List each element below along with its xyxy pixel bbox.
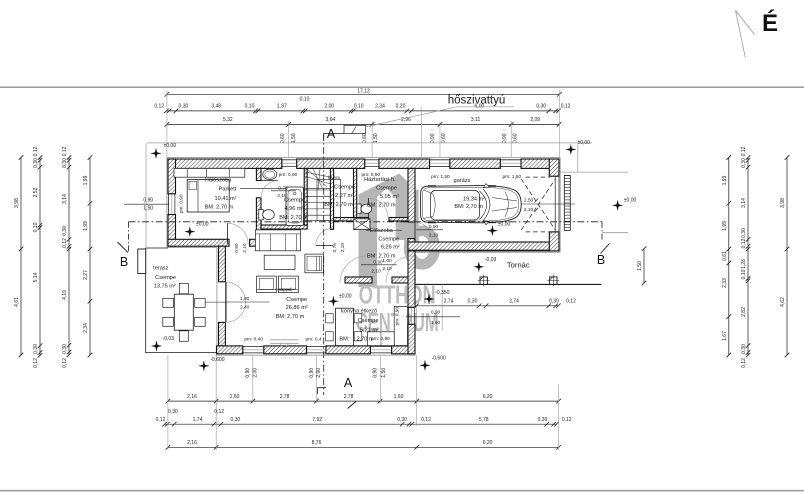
north wall segment 1 — [168, 159, 282, 168]
terrace-side west wall of living room upper — [219, 246, 226, 282]
terrace pillar on B axis — [138, 249, 146, 274]
svg-text:0,30: 0,30 — [62, 158, 68, 168]
plaster outline west facade — [166, 157, 168, 247]
svg-text:0,90: 0,90 — [373, 368, 379, 378]
svg-text:garázs: garázs — [454, 178, 471, 184]
svg-text:1,50: 1,50 — [381, 368, 387, 378]
washing machine — [354, 219, 370, 230]
page bottom rule — [0, 490, 804, 492]
svg-text:0,10: 0,10 — [741, 269, 747, 279]
svg-text:A: A — [327, 127, 336, 141]
svg-text:2,10: 2,10 — [371, 269, 381, 275]
svg-text:0,60: 0,60 — [362, 133, 368, 143]
svg-text:1,99: 1,99 — [83, 221, 89, 231]
svg-text:0,12: 0,12 — [62, 146, 68, 156]
svg-text:0,12: 0,12 — [33, 146, 39, 156]
car hood lines — [492, 192, 517, 217]
svg-text:2,40: 2,40 — [240, 304, 250, 310]
svg-text:3,14: 3,14 — [62, 194, 68, 204]
kitchen chairs — [326, 314, 334, 323]
watermark Otthon Centrum logo monogram — [359, 174, 419, 288]
svg-text:2,10: 2,10 — [524, 207, 534, 213]
garage east wall south block — [549, 232, 559, 251]
heat pump leader line — [365, 107, 514, 127]
svg-text:0,12: 0,12 — [156, 417, 166, 423]
svg-text:2,10: 2,10 — [382, 266, 392, 272]
entry hall south wall east segment — [392, 277, 415, 283]
svg-text:19,34 m²: 19,34 m² — [463, 196, 485, 202]
svg-text:5,32: 5,32 — [223, 117, 233, 123]
svg-text:2,16: 2,16 — [187, 440, 197, 446]
svg-text:2,78: 2,78 — [280, 394, 290, 400]
svg-text:BM: 2,70 m: BM: 2,70 m — [367, 202, 396, 208]
svg-text:0,12: 0,12 — [214, 409, 224, 415]
svg-text:5,78: 5,78 — [479, 417, 489, 423]
svg-text:BM:: BM: — [339, 336, 349, 342]
svg-text:2,74: 2,74 — [509, 299, 519, 305]
dim chain left overall — [20, 158, 22, 356]
south wall segment 1 — [217, 346, 243, 354]
elevation mark ±0,00 — [328, 296, 338, 306]
svg-text:6,26 m²: 6,26 m² — [381, 244, 400, 250]
svg-text:BM: 2,70 m: BM: 2,70 m — [454, 204, 483, 210]
porch extension line — [441, 284, 443, 330]
svg-text:-0,600: -0,600 — [432, 356, 446, 362]
dim chain top rooms — [167, 123, 559, 125]
bed — [187, 180, 229, 212]
sofa — [255, 230, 300, 251]
svg-text:-0,03: -0,03 — [163, 336, 175, 342]
svg-text:0,90: 0,90 — [431, 310, 441, 316]
svg-text:0,30: 0,30 — [33, 158, 39, 168]
guide line from elevation mark top right — [577, 145, 579, 173]
svg-text:4,61: 4,61 — [14, 297, 20, 307]
svg-text:0,90: 0,90 — [234, 243, 240, 253]
elevation mark -0,600 — [199, 361, 209, 371]
svg-text:3,48: 3,48 — [211, 103, 221, 109]
svg-text:1,60: 1,60 — [230, 394, 240, 400]
svg-text:0,61: 0,61 — [722, 251, 728, 261]
hall south wall east segment — [389, 218, 409, 222]
svg-text:1,50: 1,50 — [373, 133, 379, 143]
svg-text:2,27 m²: 2,27 m² — [335, 193, 354, 199]
porch floor edge line — [415, 283, 602, 285]
svg-text:2,34: 2,34 — [375, 103, 385, 109]
svg-text:-0,03: -0,03 — [485, 257, 497, 263]
svg-text:2,10: 2,10 — [429, 233, 439, 239]
svg-text:1,74: 1,74 — [193, 417, 203, 423]
svg-text:±0,00: ±0,00 — [498, 221, 511, 227]
svg-text:13,75 m²: 13,75 m² — [154, 283, 176, 289]
dim chain top detailed — [166, 110, 558, 112]
car top view body — [421, 186, 522, 223]
elevation mark -0,03 — [474, 262, 484, 272]
window W1 west bedroom window — [168, 194, 170, 215]
window S3 kitchen window — [370, 346, 391, 348]
svg-text:Tornác: Tornác — [507, 260, 530, 269]
svg-text:0,10: 0,10 — [33, 222, 39, 232]
plaster outline garage east facade — [559, 157, 561, 252]
wall bedroom-bathroom upper — [256, 168, 261, 180]
wall stairs-pantry — [330, 168, 333, 229]
svg-text:0,30: 0,30 — [33, 344, 39, 354]
garage east wall north block — [549, 159, 559, 176]
svg-text:5,21 m²: 5,21 m² — [360, 327, 379, 333]
svg-text:0,30: 0,30 — [538, 417, 548, 423]
svg-text:6,20: 6,20 — [483, 394, 493, 400]
hall south wall west segment — [334, 218, 369, 222]
kitchen counter south — [368, 332, 395, 346]
svg-text:0,30: 0,30 — [741, 344, 747, 354]
dim chain bottom overall — [168, 446, 559, 448]
bedroom south wall jamb east — [250, 239, 261, 246]
svg-text:2,00: 2,00 — [316, 368, 322, 378]
section B left marker — [128, 222, 130, 252]
svg-text:1,50: 1,50 — [143, 206, 153, 212]
dim porch depth — [643, 249, 645, 284]
svg-text:Csempe: Csempe — [286, 297, 307, 303]
svg-text:pm: 0,4: pm: 0,4 — [306, 337, 322, 343]
plot line right of garage lower — [602, 232, 628, 234]
plaster outline north facade — [167, 156, 560, 158]
south wall segment 4 — [392, 346, 415, 354]
section A bottom marker — [318, 388, 327, 394]
door bedroom to living room — [227, 223, 229, 244]
svg-text:0,30: 0,30 — [741, 158, 747, 168]
label leader line bedroom — [240, 187, 330, 189]
plaster outline garage south facade — [416, 251, 561, 253]
wall bedroom-bathroom lower — [256, 198, 261, 240]
west wall upper segment — [168, 159, 176, 194]
staircase winder treads — [305, 169, 331, 190]
svg-text:É: É — [762, 9, 778, 37]
car cabin — [431, 191, 480, 221]
elevation mark ±0,00 — [151, 148, 161, 158]
north wall segment 2 — [297, 159, 365, 168]
svg-text:0,10: 0,10 — [245, 103, 255, 109]
svg-text:3,14: 3,14 — [741, 198, 747, 208]
svg-text:0,30: 0,30 — [741, 228, 747, 238]
svg-text:2,74: 2,74 — [444, 299, 454, 305]
car wheels — [428, 186, 496, 223]
svg-text:Csempe: Csempe — [358, 318, 379, 324]
svg-text:4,19: 4,19 — [62, 290, 68, 300]
extension lines top — [166, 91, 168, 158]
svg-text:0,12: 0,12 — [566, 299, 576, 305]
svg-text:0,90: 0,90 — [502, 133, 508, 143]
dim west window — [124, 203, 168, 205]
svg-text:0,60: 0,60 — [441, 133, 447, 143]
svg-text:17,12: 17,12 — [357, 88, 370, 94]
dim chain right overall — [786, 158, 788, 356]
bathtub — [286, 187, 304, 226]
tv console on south wall — [270, 339, 298, 341]
west wall lower segment — [168, 215, 176, 247]
svg-text:Csempe: Csempe — [284, 197, 305, 203]
svg-text:6,20: 6,20 — [483, 440, 493, 446]
svg-text:±0,00: ±0,00 — [624, 197, 637, 203]
garage door swing dashed lines — [521, 179, 555, 230]
svg-text:0,30: 0,30 — [397, 417, 407, 423]
svg-text:2,34: 2,34 — [83, 323, 89, 333]
elevation mark -0,350 — [424, 294, 434, 304]
garage gate dim line — [520, 203, 575, 205]
svg-text:2,10: 2,10 — [242, 243, 248, 253]
car windshield — [480, 189, 491, 221]
terrace door dim leader — [206, 301, 227, 303]
kitchen counter east — [394, 307, 407, 346]
svg-text:Háztartási h.: Háztartási h. — [364, 177, 396, 183]
car rear window — [424, 190, 435, 218]
svg-text:A: A — [344, 376, 353, 390]
svg-text:0,12: 0,12 — [33, 358, 39, 368]
svg-text:0,12: 0,12 — [741, 358, 747, 368]
dim chain left rooms — [89, 158, 91, 356]
dim chain bottom detailed — [165, 423, 557, 425]
svg-text:8,76: 8,76 — [312, 440, 322, 446]
bedroom south wall segment west — [168, 239, 229, 246]
svg-text:0,90: 0,90 — [143, 198, 153, 204]
dim chain right detailed — [747, 158, 749, 356]
svg-text:0,12: 0,12 — [561, 103, 571, 109]
svg-text:0,10: 0,10 — [354, 103, 364, 109]
svg-text:-0,350: -0,350 — [435, 290, 449, 296]
svg-text:2,09: 2,09 — [530, 117, 540, 123]
svg-text:0,12: 0,12 — [62, 358, 68, 368]
svg-text:2,27: 2,27 — [83, 270, 89, 280]
porch column 2 — [550, 277, 557, 284]
svg-text:0,90: 0,90 — [430, 133, 436, 143]
staircase straight treads — [304, 189, 331, 191]
svg-text:pm: 0,40: pm: 0,40 — [244, 337, 263, 343]
svg-text:hőszivattyú: hőszivattyú — [448, 94, 506, 106]
svg-text:1,50: 1,50 — [431, 320, 441, 326]
armchair 2 — [279, 276, 299, 293]
svg-text:0,30: 0,30 — [231, 417, 241, 423]
porch column 1 — [480, 277, 487, 284]
coffee table — [264, 255, 295, 269]
north wall segment 3 — [379, 159, 430, 168]
elevation mark -0,03 — [152, 341, 162, 351]
svg-text:2,33: 2,33 — [722, 278, 728, 288]
door utility room — [368, 198, 370, 218]
elevation mark ±0,00 — [185, 227, 195, 237]
svg-text:0,30: 0,30 — [62, 226, 68, 236]
svg-text:0,30: 0,30 — [62, 344, 68, 354]
plot line right of garage upper — [559, 171, 628, 173]
svg-text:BM: 2,70 m: BM: 2,70 m — [279, 215, 308, 221]
south wall segment 2 — [264, 346, 307, 354]
terrace outline — [146, 248, 217, 353]
svg-text:B: B — [120, 255, 128, 269]
section B right marker — [601, 222, 603, 242]
svg-text:BM: 2,70 m: BM: 2,70 m — [205, 205, 234, 211]
terrace-side west wall of living room lower — [219, 322, 226, 346]
wall bathroom-stairs — [304, 168, 307, 225]
terrace chairs — [163, 298, 174, 307]
svg-text:±0,00: ±0,00 — [578, 140, 591, 146]
svg-text:1,99: 1,99 — [83, 175, 89, 185]
svg-text:1,00: 1,00 — [382, 258, 392, 264]
svg-text:0,90: 0,90 — [429, 224, 439, 230]
svg-text:3,98: 3,98 — [780, 198, 786, 208]
section line B-B — [129, 221, 603, 223]
tv armchair — [305, 254, 324, 273]
north arrow — [736, 10, 755, 57]
dim chain right rooms — [728, 158, 730, 356]
svg-text:0,30: 0,30 — [468, 299, 478, 305]
elevation mark -0,600 — [420, 360, 430, 370]
garage opening reveal lines — [554, 176, 556, 232]
svg-text:10,41 m²: 10,41 m² — [214, 196, 236, 202]
terrace dining table — [174, 294, 193, 330]
svg-text:-0,600: -0,600 — [210, 357, 224, 363]
svg-text:Hálószoba: Hálószoba — [205, 178, 232, 184]
svg-text:konyha étkező: konyha étkező — [341, 308, 377, 314]
utility toilet — [357, 204, 361, 214]
svg-text:3,11: 3,11 — [471, 117, 481, 123]
armchair 1 — [257, 276, 277, 293]
svg-text:Csempe: Csempe — [155, 275, 176, 281]
plaster outline bedroom south facade — [167, 247, 217, 249]
elevation mark ±0,00 — [613, 200, 623, 210]
svg-text:BM: 2,70 m: BM: 2,70 m — [324, 202, 353, 208]
svg-text:0,12: 0,12 — [154, 103, 164, 109]
svg-text:4,96 m²: 4,96 m² — [285, 206, 304, 212]
staircase flight outline — [317, 180, 341, 221]
entry hall south wall west segment — [345, 277, 372, 283]
svg-text:Előszoba: Előszoba — [370, 228, 394, 234]
door entry hall to kitchen double swing — [340, 256, 367, 283]
svg-text:pm: 0,90: pm: 0,90 — [371, 336, 390, 342]
eaves outline line north — [147, 142, 592, 144]
car mirrors — [484, 184, 490, 225]
bathroom south wall — [261, 225, 307, 229]
svg-text:5,14: 5,14 — [33, 272, 39, 282]
label entry hall leader line — [366, 229, 402, 231]
svg-text:1,60: 1,60 — [394, 394, 404, 400]
svg-text:0,30: 0,30 — [549, 299, 559, 305]
heat pump unit box — [344, 125, 366, 133]
bathroom washbasin — [263, 169, 277, 179]
svg-text:0,30: 0,30 — [179, 103, 189, 109]
north wall segment 5 — [521, 159, 559, 168]
window S2 living room window 2 — [307, 346, 326, 348]
section line A-A — [323, 134, 325, 396]
svg-text:4,62: 4,62 — [780, 297, 786, 307]
window N3 garage — [430, 159, 450, 161]
plaster outline house south facade — [216, 354, 416, 356]
svg-text:±0,00: ±0,00 — [164, 143, 177, 149]
svg-text:0,90: 0,90 — [245, 368, 251, 378]
svg-text:0,90: 0,90 — [309, 368, 315, 378]
window S1 living room window — [243, 346, 264, 348]
dim chain left detailed — [39, 158, 41, 356]
north wall segment 4 — [450, 159, 501, 168]
bedroom wardrobe — [174, 168, 245, 177]
dim chain bottom openings — [168, 400, 559, 402]
svg-text:0,75: 0,75 — [278, 185, 288, 191]
svg-text:2,10: 2,10 — [340, 243, 346, 253]
svg-text:0,30: 0,30 — [168, 409, 178, 415]
dim chain left walls — [68, 158, 70, 355]
svg-text:Csempe: Csempe — [376, 186, 397, 192]
south wall segment 3 — [326, 346, 371, 354]
svg-text:0,12: 0,12 — [421, 417, 431, 423]
door terrace double door — [224, 282, 226, 323]
label kitchen east window dims — [406, 316, 460, 318]
svg-text:±0,00: ±0,00 — [196, 222, 209, 228]
window N2 pantry — [365, 159, 379, 161]
svg-text:nappali: nappali — [279, 287, 293, 292]
dim chain porch — [416, 305, 558, 307]
page top rule — [0, 86, 804, 88]
svg-text:0,30: 0,30 — [536, 103, 546, 109]
svg-text:2,82: 2,82 — [741, 307, 747, 317]
svg-text:3,98: 3,98 — [14, 198, 20, 208]
svg-text:3,64: 3,64 — [326, 117, 336, 123]
svg-text:1,99: 1,99 — [722, 221, 728, 231]
svg-text:1,97: 1,97 — [277, 103, 287, 109]
svg-text:1,67: 1,67 — [722, 331, 728, 341]
svg-text:0,20: 0,20 — [396, 103, 406, 109]
svg-text:terasz: terasz — [153, 266, 168, 272]
svg-text:2,50: 2,50 — [524, 198, 534, 204]
svg-text:Csempe: Csempe — [334, 185, 355, 191]
east wall of hall and kitchen middle — [408, 239, 415, 308]
svg-text:0,75: 0,75 — [332, 243, 338, 253]
window N1 bathroom — [282, 159, 297, 161]
stair bottom edge — [304, 220, 331, 222]
dim chain top overall 17,12 — [167, 93, 559, 95]
svg-text:BM: 2,70 m: BM: 2,70 m — [276, 314, 305, 320]
svg-text:0,12: 0,12 — [562, 417, 572, 423]
svg-text:1,80: 1,80 — [240, 296, 250, 302]
svg-text:pm: 1,50: pm: 1,50 — [502, 174, 521, 180]
plaster outline terrace-side wall — [216, 248, 218, 356]
garage sectional door strip — [564, 176, 570, 231]
svg-text:2,16: 2,16 — [187, 394, 197, 400]
svg-text:5,05 m²: 5,05 m² — [380, 194, 399, 200]
svg-text:2,52: 2,52 — [33, 187, 39, 197]
svg-text:0,60: 0,60 — [280, 133, 286, 143]
svg-text:0,12: 0,12 — [741, 238, 747, 248]
door entry hall to garage — [414, 222, 416, 238]
window E1 kitchen east window — [408, 307, 410, 324]
bathroom toilet — [259, 210, 263, 220]
kitchen table — [336, 308, 354, 345]
window N4 garage — [500, 159, 521, 161]
svg-text:2,00: 2,00 — [324, 103, 334, 109]
svg-text:0,60: 0,60 — [512, 133, 518, 143]
elevation mark ±0,00 — [487, 226, 497, 236]
svg-text:B: B — [597, 253, 605, 267]
svg-text:Csempe: Csempe — [378, 237, 399, 243]
elevation mark ±0,00 — [566, 145, 576, 155]
svg-text:7,92: 7,92 — [312, 417, 322, 423]
svg-text:1,28: 1,28 — [741, 259, 747, 269]
wall pantry-utility — [354, 168, 357, 217]
svg-text:1,50: 1,50 — [291, 133, 297, 143]
section A top marker — [324, 134, 344, 142]
svg-text:pm: 0,90: pm: 0,90 — [394, 307, 400, 326]
svg-text:0,10: 0,10 — [300, 97, 310, 103]
garage south wall — [408, 242, 559, 251]
east wall of kitchen lower — [408, 324, 415, 354]
door stairs hall to living room — [316, 245, 333, 247]
svg-text:2,78: 2,78 — [344, 394, 354, 400]
svg-text:0,12: 0,12 — [741, 146, 747, 156]
